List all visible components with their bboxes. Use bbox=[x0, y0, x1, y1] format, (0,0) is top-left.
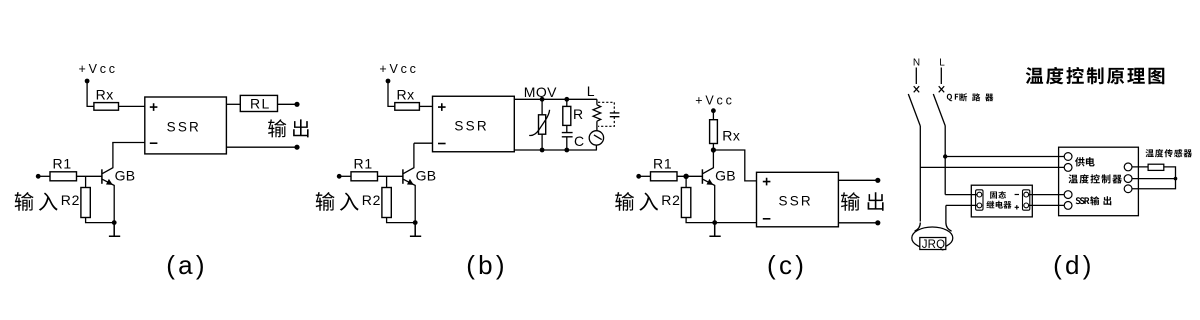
svg-text:SSR: SSR bbox=[779, 194, 813, 209]
label output 输出 (c) bbox=[841, 192, 884, 211]
wire L line down bbox=[944, 126, 946, 195]
relay left terminal strip bbox=[976, 190, 983, 210]
resistor R snubber (b) bbox=[563, 106, 571, 125]
SSR pin + (a) bbox=[150, 103, 158, 111]
svg-text:L: L bbox=[939, 58, 945, 69]
junction emitter node (a) bbox=[112, 220, 117, 225]
SSR pin - (c) bbox=[763, 218, 771, 220]
svg-text:R1: R1 bbox=[653, 155, 673, 171]
label 断路器 bbox=[959, 93, 993, 101]
wire RL to output terminal (a) bbox=[278, 103, 298, 105]
svg-text:SSR: SSR bbox=[454, 118, 488, 133]
svg-text:SSR: SSR bbox=[167, 119, 201, 134]
controller 温度控制器 box bbox=[1059, 147, 1139, 216]
transistor GB collector (b) bbox=[403, 143, 414, 173]
wire relay input lower lead bbox=[946, 204, 980, 206]
label 温度控制器 bbox=[1069, 174, 1122, 183]
heater JRQ tag box bbox=[920, 238, 946, 250]
svg-text:R: R bbox=[573, 106, 583, 122]
wire output bottom rail (b) bbox=[514, 149, 597, 151]
relay terminal circle left top bbox=[977, 192, 982, 197]
wire R to C (b) bbox=[566, 125, 568, 132]
wire sensor top lead bbox=[1132, 166, 1148, 168]
node +Vcc terminal (a) bbox=[85, 79, 90, 84]
wire +Vcc to Rx (c) bbox=[712, 111, 714, 120]
wire base node to R2 (b) bbox=[386, 176, 388, 187]
transistor GB emitter (b) bbox=[403, 179, 415, 222]
relay terminal circle right top bbox=[1024, 192, 1029, 197]
svg-text:(c): (c) bbox=[767, 250, 807, 280]
heater JRQ body bbox=[912, 227, 953, 249]
SSR pin + (c) bbox=[763, 178, 771, 186]
transistor GB emitter (a) bbox=[102, 179, 114, 222]
wire sensor middle lead bbox=[1132, 178, 1176, 180]
wire base node to R2 (c) bbox=[685, 176, 687, 187]
svg-text:R2: R2 bbox=[61, 192, 80, 208]
transistor GB emitter arrow (a) bbox=[106, 179, 113, 185]
svg-text:(a): (a) bbox=[166, 250, 208, 280]
resistor R2 (c) bbox=[681, 188, 690, 218]
junction C bottom (b) bbox=[564, 148, 569, 153]
wire source to bottom rail (b) bbox=[595, 145, 597, 150]
label input 输入 (b) bbox=[316, 192, 359, 211]
junction emitter node (b) bbox=[413, 220, 418, 225]
resistor R2 (a) bbox=[81, 188, 90, 218]
SSR module box (c) bbox=[757, 172, 839, 227]
wire relay to controller SSR- bbox=[1029, 204, 1065, 206]
node output - terminal (c) bbox=[875, 220, 880, 225]
svg-text:(d): (d) bbox=[1053, 250, 1095, 280]
SSR module box (a) bbox=[145, 97, 227, 154]
svg-text:GB: GB bbox=[416, 168, 437, 184]
controller sensor terminal 2 bbox=[1124, 175, 1132, 183]
wire bottom rail to SSR minus (c) bbox=[715, 222, 757, 224]
svg-text:Rx: Rx bbox=[96, 87, 114, 103]
wire +Vcc to Rx (a) bbox=[87, 81, 94, 106]
resistor Rx (b) bbox=[395, 103, 420, 111]
wire top rail corner to inductor (b) bbox=[596, 99, 598, 105]
wire inductor to source (b) bbox=[596, 121, 598, 131]
label input 输入 (a) bbox=[15, 192, 58, 211]
capacitor C (b) bbox=[562, 133, 573, 137]
relay terminal circle right bottom bbox=[1024, 203, 1029, 208]
relay terminal circle left bottom bbox=[977, 203, 982, 208]
junction MOV bottom (b) bbox=[540, 148, 545, 153]
wire sensor to loop bbox=[1132, 167, 1176, 189]
title 温度控制原理图 bbox=[1026, 67, 1165, 84]
ground (a) bbox=[109, 223, 120, 237]
resistor Rx (c) bbox=[710, 120, 718, 144]
wire relay to controller SSR+ bbox=[1029, 194, 1065, 196]
breaker QF contact x L bbox=[939, 86, 945, 92]
svg-text:Rx: Rx bbox=[722, 127, 740, 143]
capacitor dashed branch plates (b) bbox=[610, 113, 620, 117]
temperature sensor body bbox=[1148, 164, 1164, 170]
node output + terminal (a) bbox=[294, 102, 299, 107]
relay 固态继电器 box bbox=[971, 185, 1032, 217]
breaker QF contact x N bbox=[914, 86, 920, 92]
label SSR out latin bbox=[1076, 197, 1090, 204]
controller terminal supply 2 bbox=[1064, 164, 1072, 172]
svg-text:R2: R2 bbox=[362, 192, 382, 208]
svg-text:Rx: Rx bbox=[397, 87, 415, 103]
transistor GB emitter arrow (b) bbox=[407, 179, 414, 185]
node +Vcc terminal (c) bbox=[711, 108, 716, 113]
svg-text:R2: R2 bbox=[661, 192, 681, 208]
wire bottom rail R2 to emitter (b) bbox=[387, 218, 416, 223]
node output - terminal (a) bbox=[294, 145, 299, 150]
wire Rx to SSR plus (b) bbox=[419, 105, 432, 107]
node +Vcc terminal (b) bbox=[386, 79, 391, 84]
wire SSR out top to RL (a) bbox=[226, 103, 240, 105]
wire heater to relay input bbox=[946, 205, 952, 231]
svg-text:L: L bbox=[587, 83, 595, 99]
junction collector node (c) bbox=[711, 147, 716, 152]
relay pin - bbox=[1015, 194, 1019, 196]
inductor L zigzag (b) bbox=[593, 105, 601, 121]
junction R top (b) bbox=[564, 97, 569, 102]
svg-text:GB: GB bbox=[115, 168, 136, 184]
transistor GB base bar (a) bbox=[101, 169, 103, 184]
label output 输出 (a) bbox=[268, 119, 309, 137]
wire MOV leads (b) bbox=[541, 99, 543, 150]
label input 输入 (c) bbox=[615, 192, 658, 211]
breaker QF blade N bbox=[908, 94, 920, 126]
controller terminal out 2 bbox=[1064, 202, 1072, 210]
wire SSR out bottom (a) bbox=[226, 146, 297, 148]
svg-text:GB: GB bbox=[715, 168, 736, 184]
wire N feed stub bbox=[915, 68, 917, 85]
junction MOV top (b) bbox=[540, 97, 545, 102]
wire R top lead (b) bbox=[566, 99, 568, 106]
wire R1 to base node (a) bbox=[77, 175, 102, 177]
wire base node to R2 (a) bbox=[85, 176, 87, 187]
node input terminal (c) bbox=[636, 174, 641, 179]
wire input terminal to R1 (a) bbox=[38, 175, 50, 177]
wire bottom rail R2 to emitter (a) bbox=[86, 218, 115, 223]
relay right terminal strip bbox=[1023, 190, 1030, 210]
controller terminal supply 1 bbox=[1064, 153, 1072, 161]
SSR pin - (b) bbox=[438, 143, 446, 145]
SSR module box (b) bbox=[433, 96, 515, 152]
varistor MOV curve (b) bbox=[529, 110, 549, 136]
wire L feed stub bbox=[940, 68, 942, 85]
wire R1 to base node (c) bbox=[677, 175, 702, 177]
svg-text:N: N bbox=[913, 58, 920, 69]
resistor RL (a) bbox=[240, 95, 277, 111]
node input terminal (b) bbox=[337, 174, 342, 179]
node input terminal (a) bbox=[36, 174, 41, 179]
svg-text:R1: R1 bbox=[53, 155, 73, 171]
wire SSR minus to collector (b) bbox=[414, 142, 433, 144]
wire N line down bbox=[919, 126, 921, 222]
wire Rx to SSR plus (a) bbox=[119, 105, 145, 107]
wire input terminal to R1 (c) bbox=[639, 175, 651, 177]
label 固态 bbox=[990, 191, 1006, 199]
transistor GB emitter (c) bbox=[703, 179, 715, 222]
wire bottom rail R2 to emitter (c) bbox=[686, 218, 715, 223]
breaker QF blade L bbox=[933, 94, 945, 126]
junction base node dot (c) bbox=[683, 174, 688, 179]
svg-text:+Vcc: +Vcc bbox=[379, 62, 418, 76]
junction L supply tap bbox=[943, 154, 947, 158]
varistor MOV body (b) bbox=[539, 115, 546, 134]
wire SSR minus to collector (a) bbox=[113, 142, 145, 145]
wire input terminal to R1 (b) bbox=[339, 175, 351, 177]
SSR pin - (a) bbox=[150, 142, 158, 144]
wire output top rail (b) bbox=[514, 98, 597, 100]
transistor GB base bar (c) bbox=[701, 169, 703, 184]
wire SSR out top (c) bbox=[838, 179, 877, 181]
transistor GB base bar (b) bbox=[402, 169, 404, 184]
controller sensor terminal 1 bbox=[1124, 163, 1132, 171]
svg-text:R1: R1 bbox=[354, 155, 374, 171]
wire +Vcc to Rx (b) bbox=[388, 81, 395, 106]
ground (b) bbox=[410, 223, 421, 237]
node output + terminal (c) bbox=[875, 178, 880, 183]
wire L tap to controller supply bbox=[945, 156, 1064, 158]
junction sensor loop bbox=[1174, 177, 1178, 181]
svg-text:C: C bbox=[574, 133, 584, 149]
ac source chord (b) bbox=[594, 135, 602, 140]
relay pin + bbox=[1015, 205, 1019, 209]
junction emitter node (c) bbox=[712, 220, 717, 225]
dashed stray capacitance branch (b) bbox=[598, 102, 614, 126]
svg-text:(b): (b) bbox=[466, 250, 508, 280]
wire N to controller supply bbox=[920, 166, 1064, 168]
ac source G (b) bbox=[589, 131, 603, 145]
controller sensor terminal 3 bbox=[1124, 185, 1132, 193]
wire collector node to SSR plus (c) bbox=[713, 150, 756, 181]
wire L to relay input + bbox=[945, 194, 979, 196]
resistor R1 (b) bbox=[351, 172, 378, 181]
transistor GB emitter arrow (c) bbox=[707, 179, 714, 185]
svg-text:+Vcc: +Vcc bbox=[695, 93, 734, 107]
wire Rx to collector node (c) bbox=[712, 144, 714, 151]
transistor GB collector (a) bbox=[102, 143, 113, 174]
resistor R2 (b) bbox=[382, 188, 391, 218]
label 温度传感器 bbox=[1146, 149, 1193, 157]
wire C bottom lead (b) bbox=[566, 137, 568, 150]
label 供电 bbox=[1075, 157, 1095, 166]
wire R1 to base node (b) bbox=[378, 175, 403, 177]
ground (c) bbox=[709, 223, 720, 237]
resistor Rx (a) bbox=[94, 103, 119, 111]
label 继电器 bbox=[986, 201, 1011, 209]
transistor GB collector (c) bbox=[703, 150, 714, 174]
svg-text:RL: RL bbox=[250, 95, 271, 111]
wire SSR out bottom (c) bbox=[838, 222, 877, 224]
label QF bbox=[947, 94, 959, 102]
controller terminal out 1 bbox=[1064, 191, 1072, 199]
resistor R1 (c) bbox=[651, 172, 678, 181]
resistor R1 (a) bbox=[50, 172, 77, 181]
svg-text:+Vcc: +Vcc bbox=[79, 62, 118, 76]
label SSR out 输出 bbox=[1090, 196, 1111, 205]
svg-text:JRQ: JRQ bbox=[922, 239, 946, 251]
SSR pin + (b) bbox=[438, 103, 446, 111]
heater flare N side bbox=[915, 223, 921, 232]
